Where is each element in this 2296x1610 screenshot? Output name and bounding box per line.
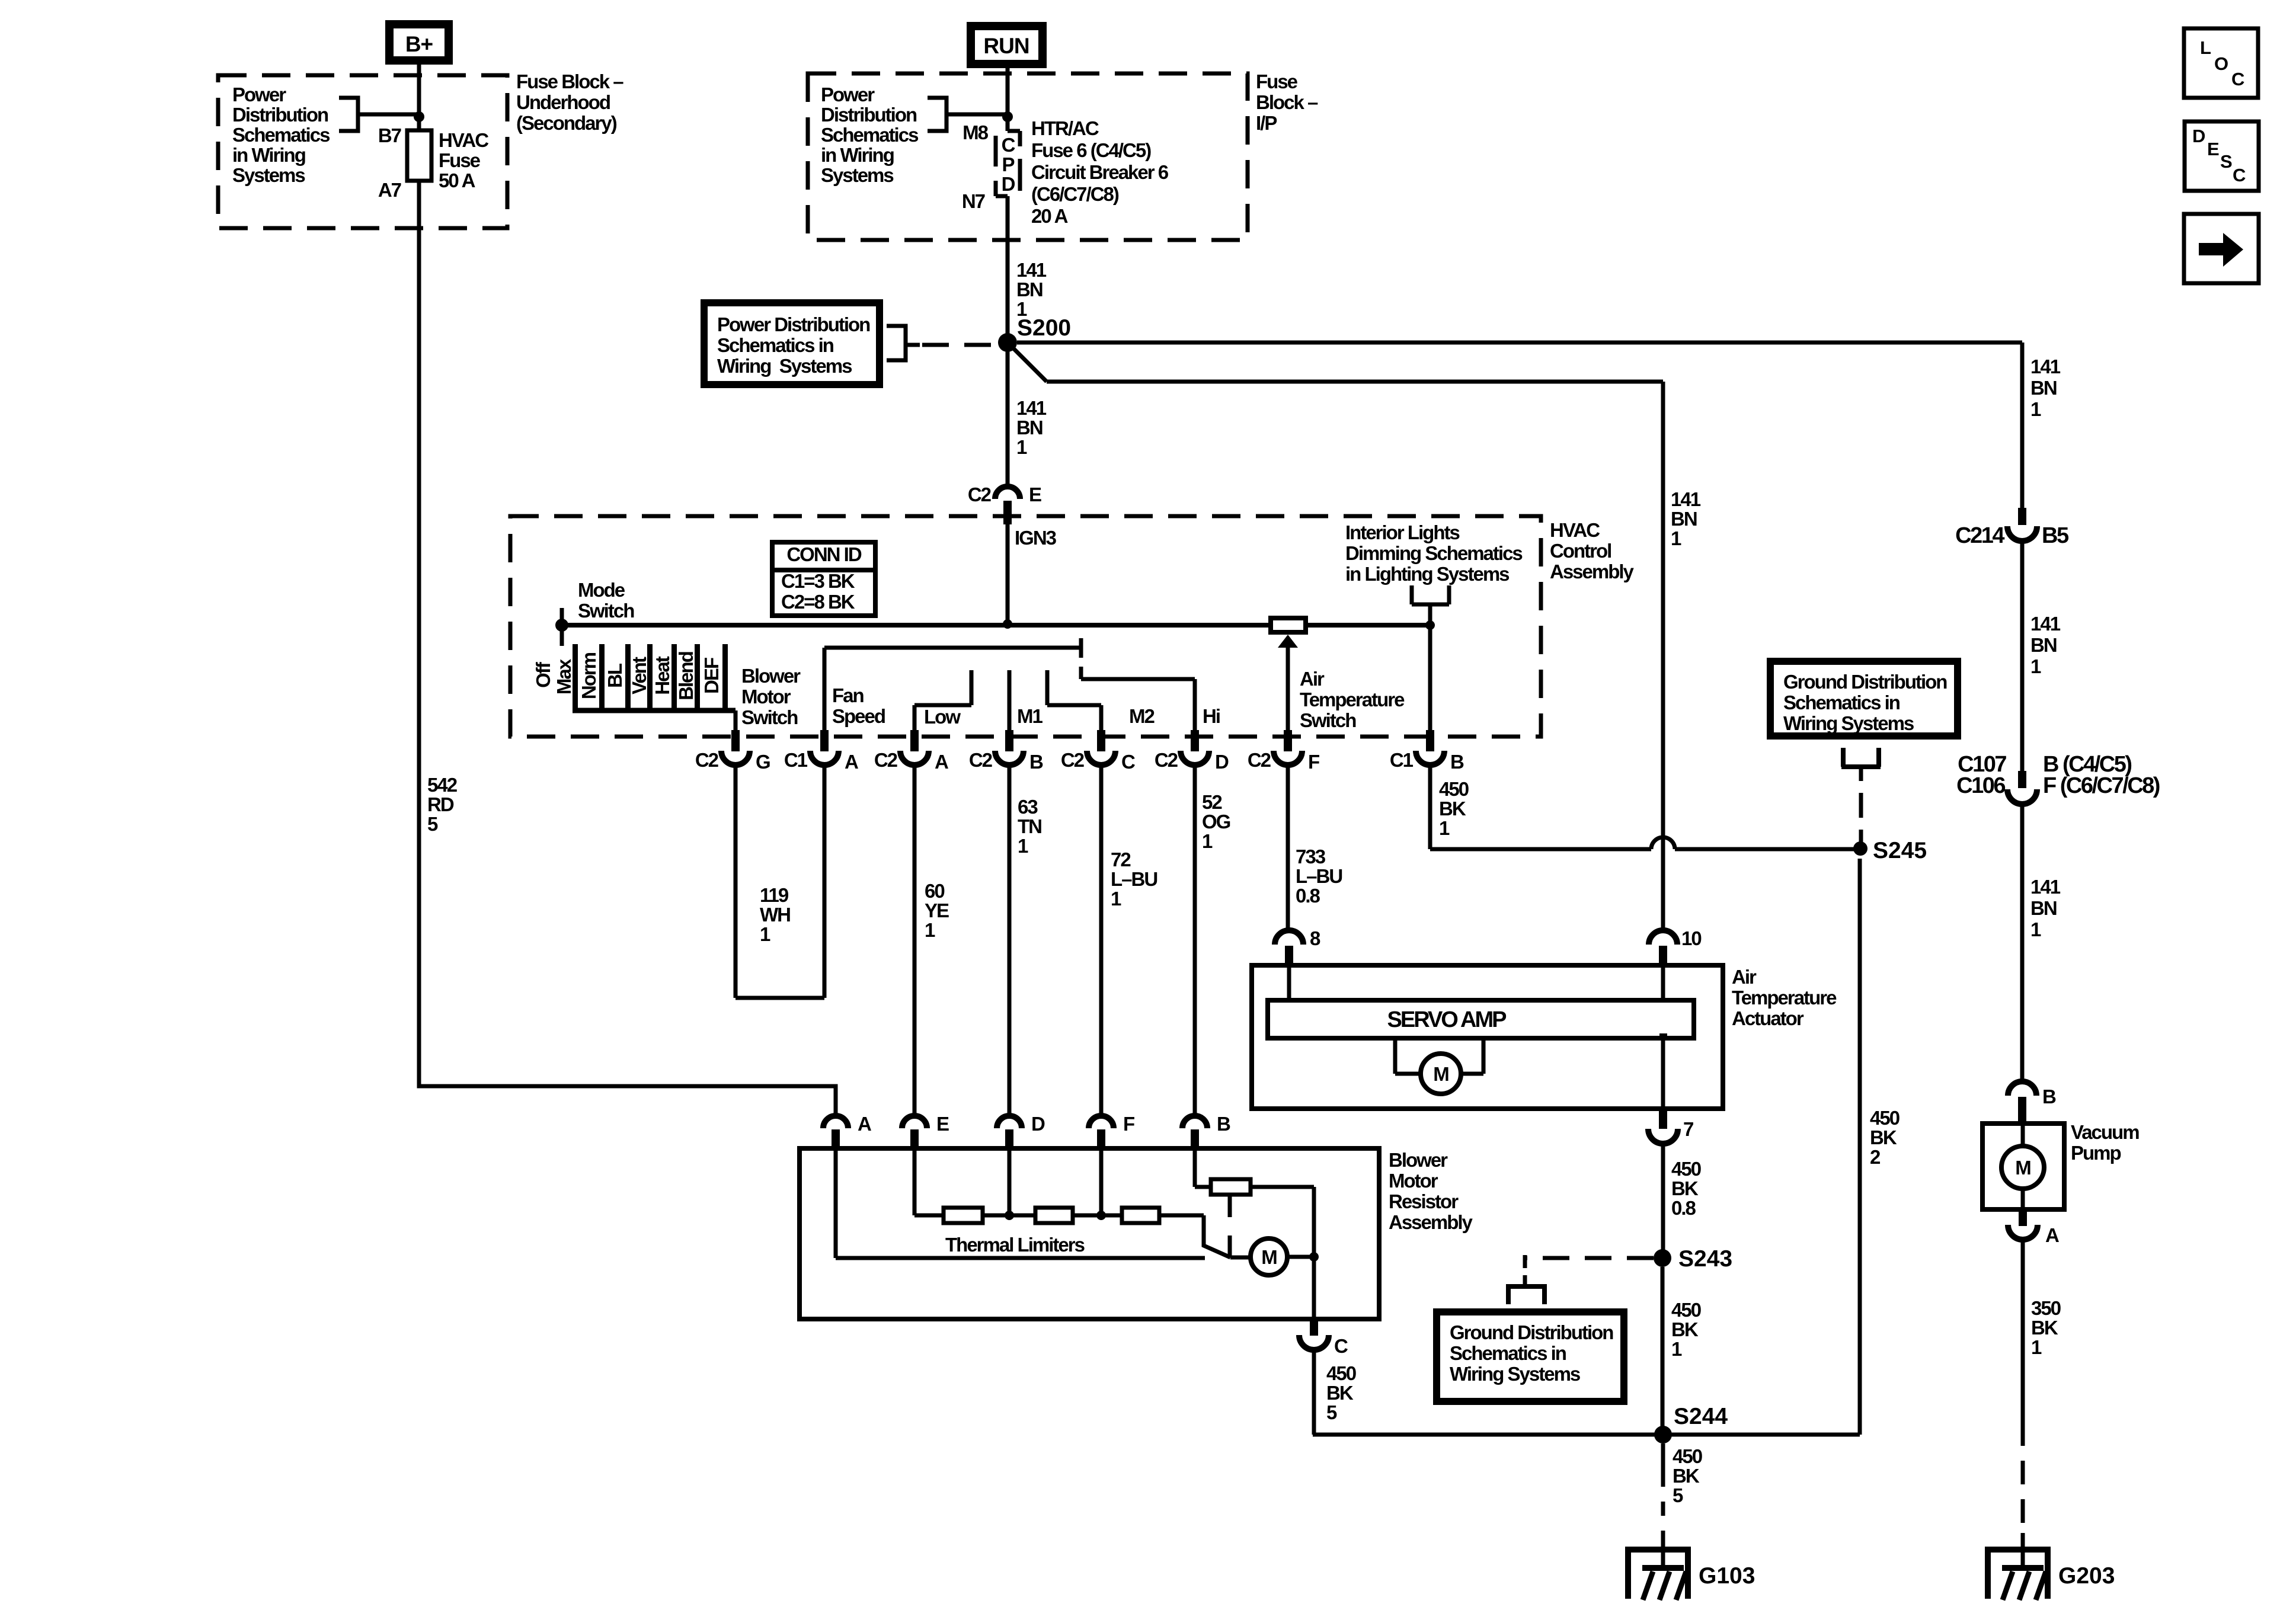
svg-text:S243: S243 [1678, 1246, 1732, 1272]
svg-text:C2: C2 [1155, 749, 1178, 771]
svg-text:Schematics in: Schematics in [1783, 692, 1900, 713]
svg-text:Fan: Fan [832, 684, 864, 706]
svg-text:Ground Distribution: Ground Distribution [1450, 1321, 1613, 1343]
svg-text:A: A [845, 751, 858, 773]
svg-text:Assembly: Assembly [1389, 1211, 1473, 1233]
svg-text:in Wiring: in Wiring [232, 144, 305, 166]
svg-text:S244: S244 [1674, 1404, 1728, 1429]
svg-text:in Lighting Systems: in Lighting Systems [1345, 563, 1509, 585]
svg-text:Speed: Speed [832, 705, 885, 727]
svg-text:I/P: I/P [1256, 112, 1277, 134]
svg-text:BK: BK [1671, 1318, 1699, 1340]
svg-text:IGN3: IGN3 [1015, 527, 1057, 549]
svg-text:BK: BK [2031, 1317, 2058, 1339]
svg-text:RD: RD [427, 793, 454, 815]
svg-text:C2: C2 [1061, 749, 1085, 771]
svg-text:G: G [756, 751, 770, 773]
svg-text:E: E [936, 1113, 949, 1135]
svg-text:20 A: 20 A [1031, 205, 1068, 227]
svg-text:Control: Control [1550, 540, 1611, 562]
svg-text:63: 63 [1018, 796, 1038, 818]
svg-text:C1: C1 [1390, 749, 1414, 771]
svg-text:B: B [2042, 1086, 2056, 1108]
svg-text:Schematics: Schematics [232, 124, 330, 146]
svg-text:5: 5 [1673, 1484, 1683, 1506]
svg-text:C2: C2 [968, 484, 992, 505]
svg-text:1: 1 [2030, 655, 2041, 677]
svg-text:S: S [2220, 151, 2232, 172]
svg-text:D: D [2192, 126, 2205, 146]
svg-text:C2: C2 [695, 749, 719, 771]
svg-text:Norm: Norm [578, 652, 600, 699]
svg-text:BN: BN [2030, 377, 2057, 399]
svg-text:Hi: Hi [1203, 705, 1220, 727]
svg-text:E: E [2207, 139, 2219, 159]
svg-text:Wiring Systems: Wiring Systems [717, 355, 852, 377]
svg-text:Switch: Switch [1300, 709, 1356, 731]
svg-text:Resistor: Resistor [1389, 1190, 1459, 1212]
svg-text:1: 1 [1671, 527, 1681, 549]
svg-text:450: 450 [1671, 1299, 1701, 1321]
svg-text:119: 119 [760, 884, 789, 906]
svg-text:G103: G103 [1699, 1563, 1755, 1589]
svg-text:Heat: Heat [651, 656, 673, 695]
svg-text:Block –: Block – [1256, 91, 1318, 113]
svg-text:(C6/C7/C8): (C6/C7/C8) [1031, 183, 1119, 205]
svg-text:A: A [2045, 1224, 2059, 1246]
svg-text:141: 141 [1016, 397, 1047, 419]
svg-text:C: C [2231, 69, 2244, 89]
svg-text:O: O [2214, 53, 2228, 74]
svg-text:Air: Air [1300, 668, 1325, 690]
svg-text:A: A [935, 751, 948, 773]
svg-text:50 A: 50 A [439, 169, 475, 191]
svg-text:N7: N7 [962, 190, 985, 212]
svg-text:Motor: Motor [1389, 1170, 1438, 1192]
svg-text:Switch: Switch [741, 706, 798, 728]
svg-text:Fuse: Fuse [1256, 71, 1298, 92]
svg-text:450: 450 [1870, 1107, 1900, 1129]
svg-text:450: 450 [1439, 778, 1469, 800]
svg-text:Underhood: Underhood [516, 91, 610, 113]
svg-text:Power: Power [821, 84, 875, 105]
svg-text:450: 450 [1673, 1445, 1702, 1467]
svg-text:Fuse: Fuse [439, 149, 481, 171]
svg-text:141: 141 [1671, 488, 1701, 510]
svg-text:Assembly: Assembly [1550, 561, 1635, 582]
svg-text:Fuse 6 (C4/C5): Fuse 6 (C4/C5) [1031, 139, 1151, 161]
svg-text:60: 60 [925, 880, 944, 902]
svg-text:D: D [1031, 1113, 1045, 1135]
svg-text:C214: C214 [1955, 523, 2004, 548]
svg-text:TN: TN [1018, 815, 1041, 837]
svg-text:Power: Power [232, 84, 286, 105]
svg-text:Wiring Systems: Wiring Systems [1783, 712, 1914, 734]
svg-text:C: C [1121, 751, 1135, 773]
svg-text:M: M [2015, 1157, 2030, 1179]
svg-text:1: 1 [1671, 1338, 1682, 1360]
svg-text:Blower: Blower [1389, 1149, 1448, 1171]
svg-text:M: M [1433, 1063, 1448, 1085]
svg-text:C: C [2233, 165, 2246, 185]
svg-text:8: 8 [1310, 927, 1320, 949]
svg-text:B: B [1217, 1113, 1230, 1135]
svg-text:Distribution: Distribution [232, 104, 328, 126]
svg-text:5: 5 [1326, 1401, 1337, 1423]
svg-text:1: 1 [1439, 817, 1450, 839]
svg-text:M1: M1 [1017, 705, 1043, 727]
svg-text:BN: BN [2030, 897, 2057, 919]
svg-text:733: 733 [1296, 846, 1326, 868]
svg-text:HTR/AC: HTR/AC [1031, 117, 1099, 139]
svg-text:1: 1 [1111, 888, 1121, 910]
svg-text:542: 542 [427, 774, 458, 796]
svg-text:Dimming Schematics: Dimming Schematics [1345, 542, 1522, 564]
svg-text:YE: YE [925, 900, 949, 921]
svg-text:1: 1 [2031, 1336, 2042, 1358]
svg-text:1: 1 [2030, 918, 2041, 940]
svg-text:Motor: Motor [741, 686, 791, 708]
svg-text:141: 141 [2030, 876, 2061, 898]
svg-text:L: L [2200, 37, 2211, 58]
svg-text:B: B [1450, 751, 1464, 773]
svg-text:M8: M8 [962, 121, 988, 143]
svg-text:BK: BK [1671, 1177, 1699, 1199]
svg-text:F: F [1308, 751, 1319, 773]
svg-text:1: 1 [760, 923, 770, 945]
svg-text:L–BU: L–BU [1296, 865, 1342, 887]
svg-text:10: 10 [1681, 927, 1701, 949]
svg-text:S200: S200 [1017, 315, 1071, 341]
svg-text:Interior Lights: Interior Lights [1345, 521, 1459, 543]
svg-text:C2: C2 [874, 749, 898, 771]
svg-text:BK: BK [1439, 798, 1466, 820]
svg-text:HVAC: HVAC [1550, 519, 1600, 541]
svg-text:Vent: Vent [628, 657, 650, 694]
svg-text:450: 450 [1671, 1158, 1701, 1180]
svg-text:141: 141 [1016, 259, 1047, 281]
svg-text:BN: BN [1016, 417, 1043, 438]
svg-text:Switch: Switch [578, 600, 634, 622]
svg-text:M: M [1261, 1246, 1277, 1268]
svg-text:Vacuum: Vacuum [2071, 1121, 2139, 1143]
svg-text:OG: OG [1202, 811, 1230, 833]
svg-text:Max: Max [553, 658, 575, 694]
svg-text:RUN: RUN [983, 34, 1029, 58]
svg-text:Schematics in: Schematics in [1450, 1342, 1566, 1364]
svg-text:A7: A7 [378, 179, 401, 201]
svg-text:HVAC: HVAC [439, 129, 488, 151]
svg-text:1: 1 [1018, 835, 1028, 857]
svg-text:Schematics in: Schematics in [717, 334, 834, 356]
svg-text:Mode: Mode [578, 579, 625, 601]
svg-text:Temperature: Temperature [1732, 987, 1837, 1009]
svg-text:1: 1 [925, 919, 935, 941]
svg-text:M2: M2 [1129, 705, 1155, 727]
svg-text:450: 450 [1326, 1362, 1356, 1384]
svg-text:SERVO AMP: SERVO AMP [1387, 1007, 1507, 1032]
svg-text:WH: WH [760, 904, 790, 926]
svg-text:CONN ID: CONN ID [786, 543, 862, 565]
svg-text:Ground Distribution: Ground Distribution [1783, 671, 1947, 693]
svg-text:1: 1 [2030, 398, 2041, 420]
svg-text:0.8: 0.8 [1671, 1197, 1696, 1219]
svg-text:Off: Off [532, 661, 554, 688]
svg-text:Low: Low [924, 706, 961, 728]
svg-text:Air: Air [1732, 966, 1757, 988]
svg-text:72: 72 [1111, 849, 1131, 870]
svg-text:Blower: Blower [741, 665, 801, 687]
svg-text:B7: B7 [378, 124, 401, 146]
svg-text:C2: C2 [969, 749, 993, 771]
svg-text:BK: BK [1673, 1465, 1700, 1487]
svg-text:Blend: Blend [675, 652, 697, 700]
svg-text:C2=8 BK: C2=8 BK [781, 591, 855, 613]
svg-text:Wiring Systems: Wiring Systems [1450, 1363, 1580, 1385]
svg-text:1: 1 [1016, 436, 1027, 458]
svg-text:Actuator: Actuator [1732, 1007, 1804, 1029]
svg-text:B: B [1029, 751, 1043, 773]
svg-text:Circuit Breaker 6: Circuit Breaker 6 [1031, 161, 1169, 183]
svg-text:B5: B5 [2042, 523, 2069, 548]
svg-text:C106: C106 [1956, 773, 2005, 798]
svg-text:F: F [1123, 1113, 1134, 1135]
svg-text:Thermal Limiters: Thermal Limiters [945, 1234, 1085, 1256]
svg-text:BN: BN [1671, 508, 1697, 530]
svg-text:D: D [1002, 173, 1015, 195]
svg-text:Schematics: Schematics [821, 124, 918, 146]
svg-text:DEF: DEF [701, 658, 722, 694]
svg-text:Fuse Block –: Fuse Block – [516, 71, 623, 92]
svg-text:D: D [1215, 751, 1229, 773]
svg-text:P: P [1002, 153, 1014, 175]
svg-text:Distribution: Distribution [821, 104, 917, 126]
svg-text:F (C6/C7/C8): F (C6/C7/C8) [2043, 773, 2160, 798]
svg-text:A: A [858, 1113, 871, 1135]
svg-text:in Wiring: in Wiring [821, 144, 894, 166]
svg-text:BL: BL [604, 663, 626, 688]
svg-text:141: 141 [2030, 613, 2061, 635]
svg-text:141: 141 [2030, 356, 2061, 377]
svg-text:Systems: Systems [232, 164, 305, 186]
svg-text:BK: BK [1326, 1382, 1354, 1404]
svg-text:7: 7 [1683, 1118, 1693, 1140]
svg-text:G203: G203 [2058, 1563, 2115, 1589]
svg-text:52: 52 [1202, 791, 1222, 813]
svg-text:L–BU: L–BU [1111, 868, 1157, 890]
svg-text:5: 5 [427, 813, 438, 835]
svg-text:Pump: Pump [2071, 1142, 2121, 1164]
svg-text:BN: BN [2030, 634, 2057, 656]
svg-text:Systems: Systems [821, 164, 893, 186]
svg-text:BN: BN [1016, 279, 1043, 300]
svg-text:C1: C1 [784, 749, 808, 771]
svg-text:C2: C2 [1248, 749, 1271, 771]
svg-text:350: 350 [2031, 1297, 2061, 1319]
svg-text:BK: BK [1870, 1126, 1897, 1148]
svg-text:0.8: 0.8 [1296, 885, 1320, 907]
svg-text:E: E [1029, 484, 1041, 505]
svg-text:Temperature: Temperature [1300, 689, 1405, 710]
svg-text:B+: B+ [405, 32, 433, 56]
svg-text:C1=3 BK: C1=3 BK [781, 570, 855, 592]
svg-text:(Secondary): (Secondary) [516, 112, 617, 134]
svg-text:C: C [1334, 1335, 1348, 1357]
svg-text:S245: S245 [1873, 838, 1927, 863]
svg-text:Power Distribution: Power Distribution [717, 313, 870, 335]
svg-text:C: C [1002, 134, 1015, 156]
svg-text:1: 1 [1202, 830, 1213, 852]
svg-text:2: 2 [1870, 1146, 1881, 1168]
